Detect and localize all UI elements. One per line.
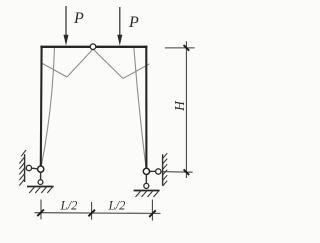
left support link to wall — [32, 167, 38, 170]
load arrow P right: head — [117, 35, 122, 46]
span dimension left tick — [37, 210, 44, 217]
span dimension right extension line — [151, 200, 153, 221]
left support ground hatching — [29, 187, 53, 193]
frame left column — [40, 46, 43, 166]
frame right column — [145, 46, 147, 169]
load arrow P left: head — [64, 35, 69, 46]
svg-text:P: P — [128, 14, 139, 31]
svg-text:H: H — [172, 100, 187, 112]
right support link to wall — [150, 170, 156, 172]
H dimension top reference line — [165, 47, 195, 49]
svg-text:P: P — [73, 10, 84, 27]
right support base hinge — [143, 168, 149, 174]
left support wall hatching — [19, 150, 26, 186]
span dimension left extension line — [40, 200, 42, 220]
span dimension right tick — [149, 210, 156, 217]
right support ground hatching — [136, 191, 160, 197]
right support wall hatching — [163, 153, 168, 186]
deformed right column (thin buckled shape) — [134, 47, 146, 168]
right support wall — [162, 154, 164, 185]
left support wall pin — [26, 165, 31, 170]
svg-text:L/2: L/2 — [60, 198, 78, 212]
H dimension line — [185, 41, 187, 178]
right support wall pin — [156, 169, 161, 174]
deformed beam right segment — [123, 64, 150, 79]
H dimension bottom tick — [184, 169, 190, 175]
hinge at beam midspan — [90, 44, 96, 50]
load arrow P left: shaft — [65, 6, 67, 38]
right support lower pin — [144, 183, 149, 188]
left support lower pin — [38, 180, 43, 185]
right support vertical link — [145, 175, 147, 184]
right support ground line — [134, 190, 160, 192]
deformed beam left segment — [42, 63, 68, 77]
left support wall — [24, 154, 26, 182]
span dimension middle tick — [88, 210, 95, 217]
left support ground line — [27, 186, 54, 188]
span dimension middle extension line — [91, 202, 93, 220]
svg-text:L/2: L/2 — [108, 198, 126, 212]
deformed beam rising to center hinge — [67, 50, 93, 77]
span dimension line — [35, 212, 161, 215]
H dimension top tick — [184, 45, 190, 51]
H dimension bottom reference line — [161, 171, 193, 174]
left support base hinge — [38, 166, 44, 172]
frame beam — [40, 46, 147, 48]
deformed left column (thin buckled shape) — [41, 47, 55, 168]
deformed beam falling from center hinge — [94, 50, 123, 79]
load arrow P right: shaft — [119, 7, 121, 38]
left support vertical link — [40, 172, 42, 179]
